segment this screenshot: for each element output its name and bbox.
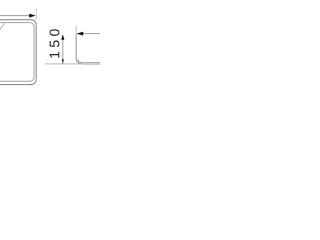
height dimension line (vertical, 150) bbox=[62, 35, 64, 64]
depth dimension arrowhead (left) bbox=[77, 32, 83, 36]
height dimension arrowhead (down) bbox=[62, 59, 64, 64]
height dimension arrowhead (up) bbox=[61, 35, 64, 40]
top view: inner rim (rounded rect, cut off at left) bbox=[0, 23, 34, 82]
side view: base top surface line (cut off at right) bbox=[78, 59, 101, 62]
width extension line (vertical) bbox=[35, 9, 37, 20]
width dimension arrowhead (right) bbox=[29, 14, 35, 18]
side view: wall and base outer outline (cut off at right) bbox=[76, 34, 101, 64]
height extension line (bottom) bbox=[45, 63, 80, 65]
side view: wall top extension segment (light) bbox=[75, 26, 77, 34]
dimension label 150 bbox=[50, 29, 60, 58]
background bbox=[0, 0, 100, 100]
depth dimension line (right, cut off) bbox=[77, 33, 101, 35]
top view: corner slope line (top-left, cut off) bbox=[0, 23, 5, 31]
width dimension line (top, cut off at left) bbox=[0, 15, 35, 17]
top view: outer rim (rounded rect, cut off at left) bbox=[0, 20, 36, 85]
